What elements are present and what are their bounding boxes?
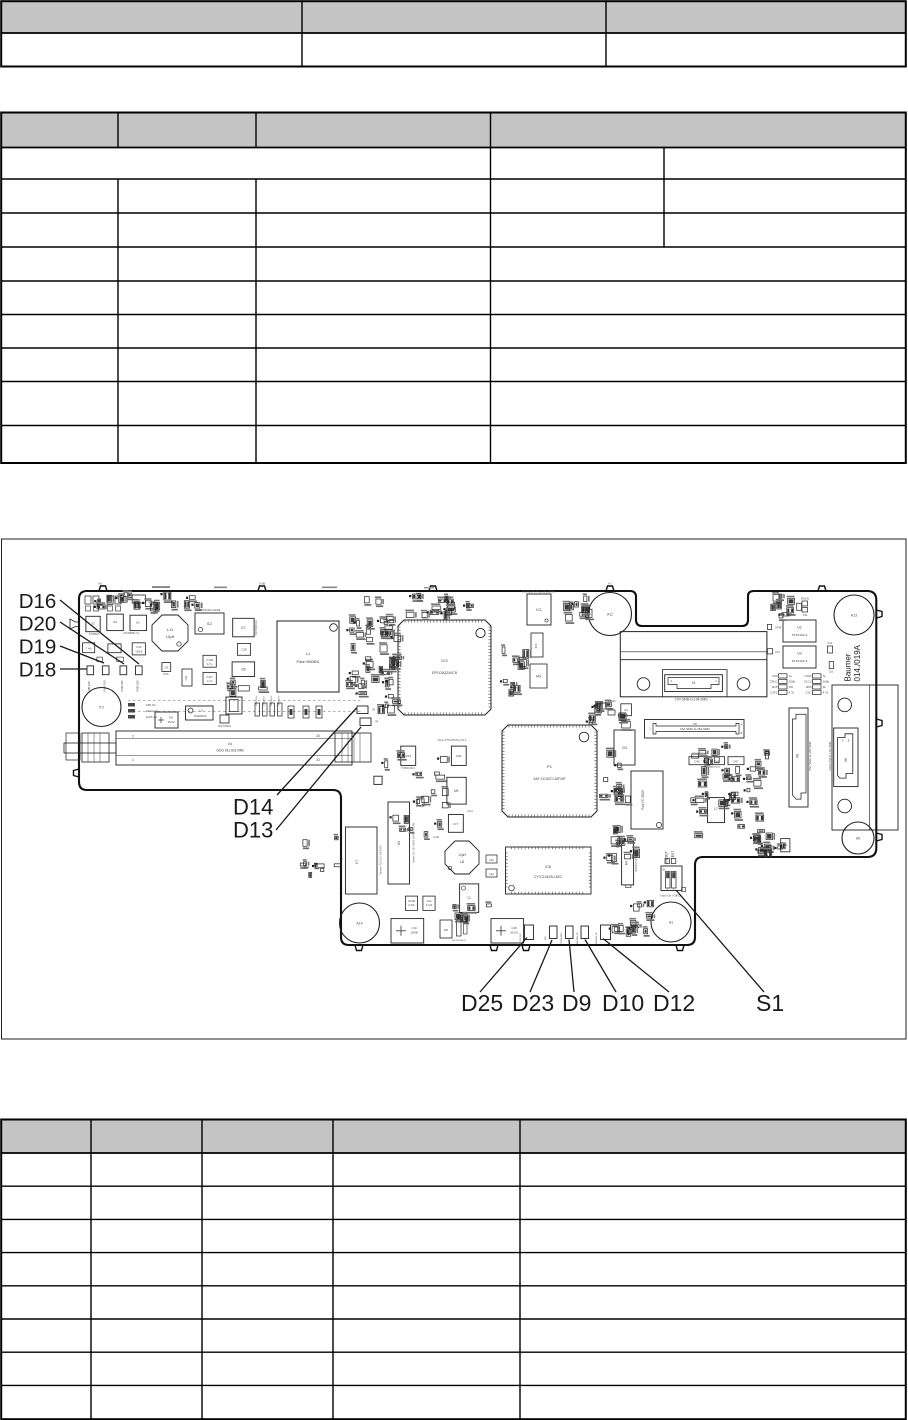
small square right of board step (374, 776, 382, 784)
svg-text:IC3: IC3 (441, 658, 448, 663)
svg-text:10μH: 10μH (166, 635, 175, 639)
svg-text:PD84-4/D5: PD84-4/D5 (561, 932, 563, 944)
IC IC7 (448, 815, 463, 833)
board edge tabs (top) (99, 586, 107, 591)
svg-text:Samtec TLE-157-06-8-DV: Samtec TLE-157-06-8-DV (379, 845, 383, 875)
component cluster under X5 (691, 742, 775, 853)
svg-text:C9LC: C9LC (770, 680, 779, 684)
component SP38 (767, 624, 771, 629)
svg-text:D13: D13 (233, 818, 273, 843)
svg-text:A5: A5 (856, 837, 860, 841)
svg-text:R13: R13 (828, 641, 833, 645)
capacitor C117 (203, 673, 216, 685)
svg-text:1k: 1k (823, 685, 827, 689)
svg-text:100n: 100n (163, 672, 169, 676)
component cluster between IC3 and IC1 (500, 644, 531, 696)
leader line D19 (60, 646, 104, 663)
svg-text:220: 220 (829, 670, 834, 674)
svg-text:2: 2 (671, 679, 673, 683)
svg-text:D25: D25 (461, 990, 503, 1016)
svg-text:D9: D9 (562, 990, 591, 1016)
mounting hole A1 (651, 902, 691, 942)
board edge tabs (right) (876, 610, 882, 618)
component cluster above IC3 (405, 593, 473, 621)
svg-text:A11: A11 (607, 613, 613, 617)
svg-text:D10: D10 (602, 990, 644, 1016)
svg-text:HB9 1M: HB9 1M (146, 703, 155, 707)
svg-text:DVI SMD-G-134 SMD: DVI SMD-G-134 SMD (675, 697, 708, 701)
svg-text:SAF-XC167CI-32F40F: SAF-XC167CI-32F40F (533, 777, 565, 781)
svg-text:MQ/70MHz: MQ/70MHz (218, 724, 232, 728)
board edge tabs (bottom) (355, 945, 363, 951)
svg-text:P1: P1 (547, 764, 553, 769)
svg-text:U3: U3 (797, 652, 801, 656)
svg-text:D20: D20 (19, 613, 57, 636)
svg-text:1p: 1p (789, 674, 793, 678)
DVI connector block (832, 685, 898, 830)
speaker icon component (left edge) (70, 619, 79, 629)
svg-text:N4: N4 (113, 620, 117, 624)
svg-text:10/0B: 10/0B (410, 931, 417, 935)
svg-text:B: B (741, 731, 743, 735)
svg-text:A: A (842, 740, 844, 743)
DIP switch S1 (660, 866, 685, 898)
svg-text:4.7μ: 4.7μ (207, 662, 213, 666)
figure frame (2, 539, 907, 1039)
svg-text:X8: X8 (796, 754, 800, 758)
table 1 grid (1, 1, 906, 66)
leader line D12 (603, 939, 669, 993)
leader line D16 (60, 600, 139, 664)
svg-text:(μ): (μ) (372, 707, 375, 711)
svg-text:C2C: C2C (805, 691, 812, 695)
electrolytic C48 (491, 919, 524, 943)
mounting hole P.2 (82, 688, 121, 727)
svg-text:23: 23 (316, 758, 320, 762)
svg-text:10/16: 10/16 (135, 649, 142, 653)
svg-text:4.7μ: 4.7μ (207, 679, 213, 683)
electrolytic C19 (391, 919, 424, 943)
leader line D13 (276, 727, 361, 830)
mounting hole A14 (340, 903, 380, 943)
svg-text:D19: D19 (19, 636, 57, 659)
square component L7 (708, 798, 725, 823)
connectors D40 D66 D67 row (689, 757, 705, 765)
svg-text:U2: U2 (797, 626, 801, 630)
svg-text:Serlex PT54-DB-05-L-3V-A: Serlex PT54-DB-05-L-3V-A (438, 739, 467, 742)
svg-text:D14B: D14B (408, 899, 415, 903)
component cluster mid strip (left of IC3) (345, 596, 404, 716)
svg-text:CY7C1041B-15ZC: CY7C1041B-15ZC (534, 875, 563, 879)
mounting hole A11 (589, 593, 632, 636)
svg-text:ON: ON (169, 716, 173, 720)
component cluster right of IC1 (563, 593, 594, 624)
svg-text:L1: L1 (306, 651, 311, 656)
connector X8 (789, 708, 812, 807)
leader line D10 (585, 940, 616, 993)
svg-text:L11: L11 (167, 627, 174, 632)
LED D9 (target) (566, 926, 574, 939)
table 2 grid (1, 113, 906, 464)
svg-text:C2F1: C2F1 (770, 691, 778, 695)
svg-text:E1944 1M: E1944 1M (146, 709, 158, 713)
ICs IC12 and IC11 (401, 746, 416, 765)
oscillator IC1 (527, 594, 551, 625)
svg-text:Puls FC-5005: Puls FC-5005 (641, 790, 645, 810)
svg-text:4.7μF: 4.7μF (426, 903, 433, 907)
svg-text:014./019A: 014./019A (853, 644, 862, 681)
svg-text:15/12: 15/12 (168, 720, 175, 724)
mounting hole A5 (842, 822, 874, 854)
svg-text:10μH: 10μH (458, 853, 466, 857)
LED D20 (120, 666, 127, 675)
table 3 grid (1, 1120, 906, 1420)
transistors T2 N4 K2 (86, 616, 100, 631)
svg-text:C114: C114 (467, 810, 473, 813)
leader line D14 (277, 708, 357, 795)
SRAM IC6 (506, 847, 592, 894)
svg-text:R19 B: R19 B (801, 597, 809, 601)
svg-text:IC1: IC1 (536, 608, 542, 612)
svg-text:10/0.8: 10/0.8 (510, 931, 518, 935)
LED D10 (target) (581, 926, 589, 939)
component cluster between L11 and L1 (226, 678, 269, 697)
leader line D25 (480, 938, 527, 993)
svg-text:1: 1 (649, 727, 651, 731)
svg-text:IC7: IC7 (453, 822, 458, 826)
svg-text:BR11B1 D5: BR11B1 D5 (577, 932, 579, 944)
svg-text:2: 2 (132, 735, 134, 739)
svg-text:C4A: C4A (426, 899, 431, 903)
inductor L8 (octagon) (445, 841, 479, 874)
microcontroller P1 (502, 725, 597, 817)
leader line D9 (569, 940, 574, 993)
capacitor C92 (182, 669, 192, 686)
svg-text:FRA1 DVI-D-I-TN SMD: FRA1 DVI-D-I-TN SMD (828, 742, 832, 771)
LED D23 (target) (550, 926, 558, 939)
svg-text:A: A (741, 723, 743, 727)
svg-text:LPM688B-3.3: LPM688B-3.3 (123, 631, 139, 635)
svg-text:Pulse H5008NL: Pulse H5008NL (296, 660, 319, 664)
svg-text:A1: A1 (669, 921, 673, 925)
connector X7 (341, 827, 382, 895)
component T9 (132, 595, 145, 603)
svg-text:IO: IO (397, 841, 401, 845)
svg-text:1W: 1W (803, 613, 808, 617)
connector X6 (828, 728, 858, 787)
fuse 7.4A (83, 643, 95, 653)
svg-text:C9: C9 (165, 666, 169, 670)
vertical caps (457, 920, 462, 936)
svg-text:K7: K7 (241, 626, 245, 630)
capacitor pairs C6 C8 (85, 596, 91, 604)
svg-text:M3: M3 (536, 675, 541, 679)
svg-text:ST1S10A-3: ST1S10A-3 (792, 659, 808, 663)
svg-text:PMB-D20: PMB-D20 (120, 680, 124, 692)
silkscreen microtext above top edge (152, 586, 170, 588)
component K15 (226, 697, 242, 714)
svg-text:D/C: D/C (545, 936, 547, 940)
component cluster bottom strip right (609, 904, 650, 937)
component cluster above heatsink (776, 596, 802, 621)
svg-text:P.2: P.2 (99, 706, 104, 710)
IC D (tall) (388, 802, 416, 884)
svg-text:EP1C6Q240C8: EP1C6Q240C8 (432, 671, 457, 675)
svg-text:100p: 100p (789, 680, 796, 684)
svg-text:MONOCPL PCC 38.515MHz: MONOCPL PCC 38.515MHz (522, 590, 556, 594)
svg-text:A9: A9 (98, 582, 102, 586)
svg-text:MB-D18: MB-D18 (87, 681, 91, 691)
component cluster bottom-mid (381, 750, 451, 840)
svg-text:L9: L9 (199, 709, 203, 713)
svg-text:X4: X4 (228, 742, 232, 746)
svg-text:A14: A14 (356, 922, 362, 926)
inductor L4 (220, 715, 229, 723)
LED D18 (87, 666, 94, 675)
svg-text:M4: M4 (625, 861, 629, 866)
svg-text:L7: L7 (714, 807, 718, 811)
flash IC4 (531, 633, 543, 657)
svg-text:C90: C90 (772, 674, 778, 678)
svg-text:B: B (848, 740, 850, 743)
mounting hole A13 (834, 595, 874, 635)
LED D16 (136, 666, 143, 675)
capacitor block mid (108, 644, 121, 653)
transformer L1 (277, 621, 339, 692)
svg-text:TEST: TEST (671, 851, 675, 860)
component G1 cluster (621, 704, 632, 716)
regulator U2 (783, 620, 816, 642)
svg-text:IC6: IC6 (545, 865, 551, 869)
LED D14 (target) (357, 706, 368, 714)
svg-text:X6: X6 (844, 758, 848, 762)
svg-text:14p: 14p (489, 872, 494, 876)
svg-text:POB3C2013: POB3C2013 (401, 767, 415, 770)
svg-text:GDU 911 8x17MB: GDU 911 8x17MB (216, 749, 244, 753)
component cluster right of P1 (600, 748, 633, 806)
inductor L11 (octagon) (152, 615, 188, 651)
svg-text:A7: A7 (608, 582, 612, 586)
DIMM socket X4 (64, 731, 371, 765)
component cluster below notch (586, 700, 633, 731)
svg-text:100p: 100p (823, 680, 830, 684)
inductor L9 (186, 706, 214, 720)
svg-text:DVI SMD-G-254 SMD: DVI SMD-G-254 SMD (680, 727, 710, 731)
svg-text:1: 1 (132, 758, 134, 762)
capacitor C9 (162, 663, 171, 672)
svg-text:D16: D16 (19, 590, 57, 613)
component cluster right lower (750, 833, 785, 858)
capacitor C139 (203, 655, 216, 667)
svg-text:K2: K2 (136, 621, 140, 625)
svg-text:R95: R95 (806, 685, 812, 689)
svg-text:4.7k: 4.7k (823, 691, 829, 695)
svg-text:X7: X7 (355, 860, 359, 864)
svg-text:D12: D12 (653, 990, 695, 1016)
svg-text:R15: R15 (772, 685, 778, 689)
svg-text:ST1S10A-2: ST1S10A-2 (792, 633, 808, 637)
two-pin parts (97, 657, 103, 661)
svg-text:X5: X5 (693, 722, 697, 726)
IC I26 (232, 662, 255, 677)
svg-text:14p: 14p (489, 858, 494, 862)
connector X5 (645, 720, 745, 739)
IC G3 (614, 730, 635, 765)
leader line D23 (530, 940, 552, 992)
component AS1 (767, 649, 772, 654)
svg-text:7.4A: 7.4A (86, 647, 92, 651)
svg-text:S1: S1 (662, 868, 666, 872)
svg-text:A13: A13 (851, 614, 857, 618)
svg-text:C48: C48 (511, 926, 517, 930)
svg-text:C104: C104 (804, 674, 812, 678)
capacitor ON 15/12 (155, 712, 178, 728)
resistor row above DIMM (255, 703, 260, 716)
svg-text:R8: R8 (444, 928, 448, 932)
resistor R8 (440, 920, 452, 938)
svg-text:2: 2 (341, 857, 343, 861)
svg-text:1: 1 (715, 679, 717, 683)
heatsink module (620, 632, 767, 697)
svg-text:C92: C92 (184, 675, 188, 680)
svg-text:J4D/100Hz: J4D/100Hz (271, 696, 273, 707)
svg-text:T2: T2 (91, 622, 95, 626)
svg-text:PMB-D19: PMB-D19 (103, 680, 107, 692)
svg-text:1W: 1W (789, 685, 794, 689)
transceiver M4 (622, 841, 638, 887)
leader line D20 (60, 622, 124, 664)
component Ci (460, 884, 479, 913)
svg-text:S1: S1 (756, 990, 784, 1016)
svg-text:24: 24 (316, 734, 320, 738)
IC K7 (233, 618, 254, 637)
svg-text:Ci: Ci (467, 896, 470, 900)
svg-text:MC78L05ACD: MC78L05ACD (452, 939, 467, 942)
capacitor C25 (238, 686, 249, 691)
svg-text:C28: C28 (241, 648, 247, 652)
svg-text:G1: G1 (624, 708, 628, 712)
svg-text:744642510: 744642510 (194, 714, 208, 718)
board edge tab (left) (74, 769, 80, 777)
dashed fold lines (128, 700, 362, 702)
leader line S1 (676, 890, 764, 992)
component cluster bottom strip left (453, 901, 492, 924)
capacitor C10 (132, 643, 145, 655)
component T3 (781, 839, 790, 852)
svg-text:SP38: SP38 (775, 626, 782, 630)
component cluster top-left second group (150, 592, 203, 614)
regulator M3 (530, 664, 547, 688)
power module L3 (631, 771, 663, 829)
svg-text:L8: L8 (460, 860, 464, 864)
svg-text:D18: D18 (19, 659, 57, 682)
svg-text:IC12: IC12 (405, 754, 411, 758)
svg-text:4.7μF: 4.7μF (408, 903, 415, 907)
svg-text:C170 D/C: C170 D/C (520, 933, 522, 943)
IC M1 (447, 777, 466, 804)
component cluster near L3/S1 (603, 825, 639, 864)
svg-text:C148: C148 (433, 836, 439, 839)
LED D13 (target) (360, 718, 371, 726)
PCB board outline (79, 591, 876, 945)
resistor R13 (827, 646, 832, 653)
svg-text:IC2: IC2 (207, 622, 212, 626)
svg-text:IC11: IC11 (456, 754, 462, 758)
svg-text:IC4: IC4 (534, 643, 538, 648)
svg-text:A3B: A3B (259, 582, 265, 586)
LED D25 (target) (525, 925, 534, 940)
FPGA IC3 (398, 620, 491, 715)
svg-text:7p: 7p (823, 674, 827, 678)
svg-text:4.7k: 4.7k (789, 691, 795, 695)
svg-text:J4D/100Hz: J4D/100Hz (279, 696, 281, 707)
svg-text:PMB-D16: PMB-D16 (136, 680, 140, 692)
connector X1 (665, 675, 723, 702)
svg-text:G3: G3 (622, 746, 627, 750)
svg-text:AS1: AS1 (775, 650, 780, 654)
svg-text:X1: X1 (692, 681, 696, 685)
component cluster top-left rows (94, 590, 154, 609)
svg-text:M1: M1 (454, 789, 459, 793)
svg-text:D67: D67 (733, 760, 739, 764)
svg-text:SM79MO133: SM79MO133 (254, 620, 258, 636)
svg-text:D40: D40 (694, 760, 700, 764)
resistor R19 (802, 601, 808, 606)
capacitors D14B / C4A (405, 896, 417, 910)
svg-text:(μ): (μ) (375, 719, 378, 723)
component cluster left of X7 (300, 834, 341, 878)
svg-text:C19: C19 (411, 926, 417, 930)
svg-text:J4D/100Hz: J4D/100Hz (256, 696, 258, 707)
regulator IC2 (195, 608, 224, 634)
svg-text:D14: D14 (233, 795, 273, 820)
component cluster top-right corner (771, 592, 796, 616)
svg-text:J4D/100Hz: J4D/100Hz (264, 696, 266, 707)
resistor rows HB9/E1944/EH25 (128, 703, 135, 707)
regulator U3 (783, 646, 816, 668)
svg-text:C1C2: C1C2 (804, 680, 812, 684)
svg-text:D23: D23 (512, 990, 554, 1016)
LED D19 (102, 666, 109, 675)
svg-text:BR11B1 D5: BR11B1 D5 (596, 932, 598, 944)
svg-text:DVI SMD-G-254 SMD: DVI SMD-G-254 SMD (808, 741, 812, 771)
svg-text:I26: I26 (241, 668, 246, 672)
resistor R51 (829, 662, 833, 669)
leader line D18 (60, 668, 87, 670)
capacitors beside IC6 (486, 855, 497, 863)
svg-text:1: 1 (341, 891, 343, 895)
component cluster below S1 (637, 900, 656, 921)
LED D12 (target) (601, 925, 611, 940)
svg-text:Baumer: Baumer (844, 653, 853, 681)
capacitor C28 (237, 643, 250, 655)
